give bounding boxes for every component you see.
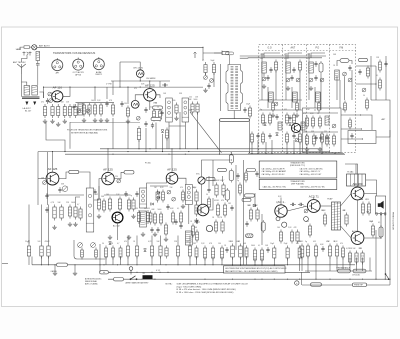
resistor R48: [40, 244, 43, 259]
resistor R37: [127, 198, 130, 212]
capacitor C11 (can): [319, 61, 323, 74]
wire go down: [263, 73, 265, 77]
fuse F1: [22, 46, 32, 49]
node box3: [314, 109, 315, 110]
output transformer T4: [347, 174, 366, 186]
svg-text:0,1: 0,1: [150, 107, 152, 109]
svg-text:CA 1 435Kg - 455 KC AM FI: CA 1 435Kg - 455 KC AM FI: [262, 167, 285, 170]
svg-text:FI 455: FI 455: [145, 163, 152, 165]
diode D4: [144, 249, 147, 252]
junction bus 0: [41, 264, 42, 265]
capacitor C3: [105, 101, 108, 107]
IF can FI1a: [166, 98, 173, 122]
svg-text:25gF: 25gF: [25, 241, 29, 243]
wire drop bottom 1: [48, 257, 50, 265]
ground G32: [271, 113, 275, 118]
node m1: [119, 87, 120, 88]
svg-text:455: 455: [313, 241, 316, 243]
wire drop c2: [112, 256, 114, 265]
coil L6 GO: [262, 62, 267, 73]
capacitor C42: [266, 75, 269, 81]
wire md5: [145, 128, 147, 152]
resistor R7: [93, 103, 96, 117]
junction bus 12: [204, 264, 205, 265]
diode D5: [253, 204, 256, 207]
svg-text:455: 455: [248, 205, 251, 207]
trimmer CV13: [343, 72, 347, 76]
wire fi4 down: [188, 205, 190, 225]
svg-text:50: 50: [299, 241, 301, 243]
junction bus2 6: [167, 272, 168, 273]
ground G33: [295, 113, 299, 118]
junction bus3 9: [299, 279, 300, 280]
svg-text:50gF: 50gF: [270, 243, 274, 245]
wire q12 out: [364, 214, 381, 238]
table TRANSISTORS (frame): [259, 161, 337, 178]
wire fm v3: [351, 70, 353, 100]
jack J1: [23, 52, 29, 56]
node drop2 0: [232, 264, 233, 265]
resistor R94: [361, 251, 364, 265]
svg-text:CA 5 455Kg - 566 KC CV: CA 5 455Kg - 566 KC CV: [300, 170, 321, 173]
resistor R128: [314, 244, 317, 259]
resistor R42: [164, 223, 167, 237]
terminal + circle: [295, 281, 299, 285]
capacitor C32 elytic: [379, 225, 383, 239]
wire q2 coll: [156, 95, 160, 98]
svg-text:4,7: 4,7: [284, 54, 286, 56]
wire q2 up: [149, 81, 151, 89]
svg-text:LES TENSIONS SONT MESUREES EN: LES TENSIONS SONT MESUREES EN VOLT(CC) A…: [225, 267, 287, 270]
capacitor C43: [290, 75, 293, 81]
capacitor C21: [124, 191, 127, 197]
wire bb v5: [286, 142, 288, 154]
capacitor C61: [314, 135, 317, 141]
wire col down a: [221, 51, 223, 56]
resistor R5: [68, 104, 71, 118]
resistor R58: [215, 183, 218, 198]
svg-text:5600: 5600: [251, 245, 255, 247]
svg-text:455KC: 455KC: [284, 58, 290, 60]
junction bus 8: [151, 264, 152, 265]
wire left col1: [47, 152, 49, 205]
resistor R112: [79, 207, 82, 221]
capacitor C49: [58, 187, 61, 193]
svg-text:455: 455: [147, 208, 150, 210]
ferrite rod: [22, 97, 40, 99]
junction bus3 7: [274, 279, 275, 280]
wire fm sub rail2: [303, 131, 338, 133]
wire gang left rail: [220, 64, 222, 111]
resistor R21: [318, 116, 321, 129]
svg-text:ANT: ANT: [291, 47, 296, 50]
rail C: [100, 153, 345, 155]
wire cadre to base: [40, 92, 44, 98]
wire drop c3: [120, 256, 122, 265]
junction bus2 4: [151, 272, 152, 273]
wire fm out3: [341, 138, 363, 140]
resistor R24: [332, 134, 335, 147]
svg-text:POUR LES TENSIONS DES TRANSIST: POUR LES TENSIONS DES TRANSISTORS: [67, 129, 108, 132]
transistor Q12 AC180: [351, 232, 364, 245]
resistor R8: [99, 103, 102, 117]
wire right v2: [375, 66, 377, 100]
resistor R119: [182, 190, 185, 203]
svg-text:SUR LES APPAREILS EQUIPES DU T: SUR LES APPAREILS EQUIPES DU TRANSISTOR …: [177, 282, 249, 285]
node rl1: [219, 154, 220, 155]
wire q8 coll: [209, 198, 213, 210]
svg-text:TRANSISTORS VUS DE DESSOUS: TRANSISTORS VUS DE DESSOUS: [53, 51, 95, 55]
junction bus3 13: [362, 279, 363, 280]
capacitor C45: [350, 133, 353, 139]
wire v int 4: [127, 120, 129, 149]
pill PRISE HP: [353, 283, 367, 287]
svg-text:CA 3 455g - 455 KC 455 KC: CA 3 455g - 455 KC 455 KC: [262, 173, 286, 176]
wire bottom right v: [369, 258, 371, 272]
ground G22: [194, 218, 198, 223]
junction bus 1: [48, 264, 49, 265]
ground G19: [141, 232, 145, 237]
wire if v1: [76, 197, 81, 205]
wire v int 8: [197, 112, 199, 149]
resistor R110: [366, 98, 369, 111]
resistor R151: [299, 132, 302, 145]
resistor R76: [298, 246, 301, 261]
resistor R39: [146, 210, 149, 224]
wire go v2: [275, 71, 277, 101]
trimmer CV32: [348, 78, 352, 82]
trimmer CV5: [136, 116, 140, 120]
transistor Q9 AC126 driver: [275, 200, 287, 217]
resistor R57: [206, 177, 215, 180]
pinout view AC180 family: [93, 57, 104, 69]
svg-text:0,1: 0,1: [177, 208, 179, 210]
resistor R89: [231, 244, 235, 260]
resistor R56: [188, 244, 191, 259]
supply bus 3: [108, 278, 390, 280]
wire q11 out: [364, 194, 377, 197]
capacitor C46: [288, 115, 291, 121]
wire mixer link: [76, 102, 115, 104]
coil L19: [185, 231, 192, 245]
capacitor C1: [36, 61, 40, 86]
node ant drop: [202, 47, 203, 48]
svg-text:CHC 2A70: CHC 2A70: [133, 66, 144, 69]
junction bus3 2: [154, 279, 155, 280]
thermistor NTC: [282, 222, 287, 227]
svg-text:0,1: 0,1: [238, 241, 240, 243]
tuner label band: [259, 50, 356, 52]
node rail b1: [52, 151, 53, 152]
wire drop bottom3 1: [301, 258, 303, 272]
resistor R98: [95, 248, 98, 260]
ground G18: [127, 235, 131, 240]
wire drop bottom 0: [41, 257, 43, 265]
wire right link: [376, 130, 390, 137]
coil L18 det: [140, 211, 147, 227]
wire fm out2: [341, 128, 362, 130]
resistor R55: [176, 244, 179, 259]
svg-text:103: 103: [38, 241, 41, 243]
resistor R15: [212, 62, 215, 75]
resistor R77: [308, 224, 311, 238]
resistor R46: [179, 211, 182, 225]
capacitor C47: [384, 61, 387, 67]
resistor R111: [74, 205, 77, 220]
wire box h1: [259, 99, 302, 101]
svg-text:470: 470: [221, 200, 224, 202]
coil L11 PO2: [316, 92, 321, 102]
capacitor C29 elytic: [261, 220, 265, 233]
node drop2 3: [261, 264, 262, 265]
svg-text:BL 107: BL 107: [25, 111, 32, 113]
wire vol to q8: [201, 184, 203, 204]
wire tuner v1: [267, 87, 269, 108]
capacitor C59: [236, 173, 239, 179]
svg-text:THERMISTANCE: THERMISTANCE: [336, 267, 351, 270]
capacitor C56: [321, 246, 324, 252]
resistor R84: [371, 224, 374, 238]
wire right col a: [389, 172, 391, 285]
resistor R26: [268, 113, 271, 126]
transistor Q2 AF125 mixer: [144, 84, 156, 101]
resistor R83: [367, 202, 370, 216]
svg-text:470: 470: [134, 88, 137, 90]
svg-text:AC 180: AC 180: [352, 230, 360, 233]
wire cadre left lead: [22, 82, 27, 86]
wire mix v4: [127, 87, 129, 104]
trimmer CV31: [320, 78, 324, 82]
wire drop top 4: [136, 236, 138, 244]
wire t3 in: [320, 205, 331, 207]
node mixer top1: [140, 87, 141, 88]
trimmer CV16: [62, 186, 68, 192]
wire go v1: [261, 53, 263, 100]
resistor R23: [312, 134, 315, 147]
wire q7 up: [171, 149, 173, 173]
resistor R88: [220, 246, 223, 261]
resistor R127: [306, 244, 309, 259]
wire drop bottom3 3: [336, 258, 338, 272]
wire audio v2: [235, 165, 237, 250]
resistor R115: [132, 198, 135, 212]
ground G15: [52, 225, 56, 230]
junction bus3 12: [349, 279, 350, 280]
wire drop bottom 6: [177, 257, 179, 265]
svg-text:470: 470: [303, 113, 306, 115]
wire fuse drop: [20, 47, 22, 50]
svg-text:PRISE HP: PRISE HP: [354, 285, 364, 287]
capacitor C41: [162, 83, 168, 86]
resistor R133: [239, 183, 242, 196]
svg-text:NOTA :: NOTA :: [166, 282, 173, 285]
wire left col2: [28, 259, 30, 266]
wire md6: [179, 112, 181, 149]
svg-text:0,1: 0,1: [202, 60, 204, 62]
ground G1: [43, 119, 47, 124]
wire drop top 7: [177, 236, 179, 244]
node md1: [138, 148, 139, 149]
wire box bottom rail: [248, 153, 344, 155]
resistor R79: [323, 213, 326, 227]
node box2: [291, 99, 292, 100]
resistor R1: [43, 104, 46, 118]
wire audio v6: [261, 214, 263, 245]
node md5: [145, 151, 146, 152]
resistor R80: [345, 213, 348, 227]
svg-text:470: 470: [307, 58, 310, 60]
wire gang stem2: [233, 111, 235, 119]
svg-text:CA 4 178 x 455 KC AM OSC: CA 4 178 x 455 KC AM OSC: [300, 167, 324, 170]
switch S4: [385, 273, 390, 280]
resistor R152: [321, 132, 324, 145]
trimmer CV14: [332, 124, 336, 128]
IF can FI4: [185, 185, 192, 205]
resistor R18: [298, 60, 301, 73]
wire therm bus: [305, 270, 372, 272]
resistor R67: [256, 208, 259, 222]
wire ant link: [288, 53, 302, 58]
resistor R47: [27, 244, 30, 259]
resistor R140: [153, 109, 156, 122]
wire t4 up: [345, 164, 356, 174]
svg-text:2K2: 2K2: [193, 243, 196, 245]
svg-text:220: 220: [189, 97, 192, 99]
svg-text:TS 2A5: TS 2A5: [347, 171, 353, 174]
jack J2: [29, 52, 32, 56]
driver transformer T3: [332, 202, 341, 230]
resistor R19: [305, 116, 308, 129]
wire drop bottom3 5: [356, 258, 358, 272]
coil L14: [325, 116, 329, 125]
switch bank S1 (gang): [226, 65, 243, 111]
wire bb v6: [293, 140, 295, 154]
node rl2: [231, 152, 232, 153]
wire q9 up: [280, 198, 282, 205]
resistor R97: [81, 248, 84, 260]
svg-text:150: 150: [306, 221, 309, 223]
trimmer CV1: [48, 92, 52, 96]
svg-text:5g: 5g: [237, 180, 239, 182]
node rf2: [69, 87, 70, 88]
node drop2 2: [254, 264, 255, 265]
arrow cadre right: [33, 102, 36, 106]
resistor R25: [261, 113, 264, 126]
resistor R161: [245, 171, 248, 183]
svg-text:R 39 = 1500 ohm : 2200 OHM: R 39 = 1500 ohm : 2200 OHM (ROUGE-ROUGE-…: [177, 292, 234, 294]
junction bus3 3: [204, 279, 205, 280]
coil L31: [301, 122, 305, 130]
resistor R68 (hatched pill): [246, 234, 253, 237]
resistor R160: [247, 169, 256, 172]
svg-text:455KC: 455KC: [214, 200, 220, 202]
detector box: [74, 240, 105, 259]
wire md3: [162, 134, 164, 152]
resistor R41: [159, 212, 162, 226]
wire drop c1: [105, 256, 107, 265]
svg-text:PRISE ECOUTEUR: PRISE ECOUTEUR: [392, 212, 394, 230]
wire box h2: [259, 109, 302, 111]
wire bb v1: [251, 142, 253, 154]
transistor Q8 AC125 preamp: [197, 204, 209, 216]
resistor R101: [88, 103, 91, 117]
resistor R31: [366, 66, 369, 79]
svg-text:455KC: 455KC: [45, 241, 51, 243]
svg-text:4 3 2: 4 3 2: [156, 270, 160, 272]
wire bottom v1: [301, 272, 303, 285]
junction bus2 3: [136, 272, 137, 273]
transformer T2 FI drive: [131, 100, 139, 108]
coil L1 coupling: [36, 52, 40, 61]
junction bus3 1: [136, 279, 137, 280]
resistor R40: [153, 212, 156, 226]
wire bb v7: [299, 142, 301, 154]
capacitor C57: [207, 187, 210, 193]
wire po v2: [320, 74, 322, 110]
capacitor C58: [194, 220, 200, 223]
node mixer top2: [149, 80, 150, 81]
wire if h1: [46, 194, 84, 196]
resistor R82: [361, 202, 364, 216]
transistor Q6 AC125 AGC: [112, 212, 123, 223]
wire q5 coll: [114, 172, 124, 178]
capacitor on gang top: [226, 52, 234, 65]
wire top link2: [203, 52, 222, 54]
wire drop bottom 5: [160, 257, 162, 265]
node rail c2: [168, 154, 169, 155]
trimmer CV30: [296, 78, 300, 82]
ground G17: [108, 235, 112, 240]
wire drop bottom 2: [127, 257, 129, 265]
connector ANT AUTO: [32, 45, 37, 50]
resistor R16: [248, 106, 251, 119]
capacitor C54: [225, 247, 228, 253]
svg-text:4,7: 4,7: [117, 243, 119, 245]
svg-text:455: 455: [284, 109, 287, 111]
resistor R69: [253, 248, 256, 263]
junction bus 2: [54, 264, 55, 265]
wire right drop2: [389, 130, 391, 172]
wire row ground rail: [70, 122, 140, 124]
trimmer CV4: [86, 109, 90, 113]
svg-text:AF716: AF716: [75, 74, 81, 77]
node bb3: [306, 153, 307, 154]
wire bus2 left drop: [99, 244, 101, 272]
wire drop bottom2 2: [254, 258, 256, 265]
trimmer CV10: [274, 102, 278, 106]
wire drop bottom3 6: [362, 258, 364, 272]
resistor R33: [60, 205, 63, 221]
resistor R125: [195, 246, 198, 260]
transistor Q1 AF116: [52, 86, 63, 102]
svg-text:25gF: 25gF: [284, 243, 288, 245]
wire right h3: [371, 100, 390, 130]
wire ant v1: [285, 53, 287, 100]
transformer T1 CHC 2A70: [136, 70, 144, 78]
capacitor C52: [166, 204, 169, 210]
svg-text:150: 150: [218, 243, 221, 245]
potentiometer P1 volume: [198, 177, 205, 184]
node box1: [267, 99, 268, 100]
resistor R106: [349, 118, 352, 130]
coil L4: [78, 103, 83, 115]
trimmer CV19: [172, 197, 176, 201]
resistor R65: [242, 198, 251, 201]
svg-text:5g: 5g: [130, 195, 132, 197]
pinout view AF116 family: [52, 58, 63, 70]
ground G4: [63, 119, 67, 124]
wire sp t3: [384, 214, 386, 279]
